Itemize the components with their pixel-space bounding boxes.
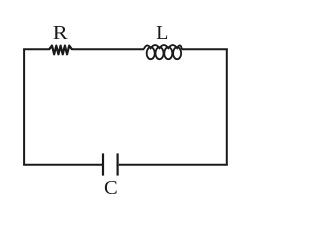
svg-text:L: L xyxy=(156,22,168,44)
inductor L xyxy=(144,45,182,59)
wire resistor to inductor xyxy=(72,48,144,50)
wire right side xyxy=(226,49,228,165)
wire top-left to resistor xyxy=(23,48,49,50)
resistor R xyxy=(49,46,72,55)
capacitor C xyxy=(103,153,118,175)
wire capacitor to bottom-right xyxy=(119,164,228,166)
wire bottom-left to capacitor xyxy=(23,164,102,166)
wire left side xyxy=(23,49,25,165)
svg-text:R: R xyxy=(53,21,69,44)
svg-text:C: C xyxy=(104,177,118,199)
wire inductor to top-right xyxy=(181,48,227,50)
